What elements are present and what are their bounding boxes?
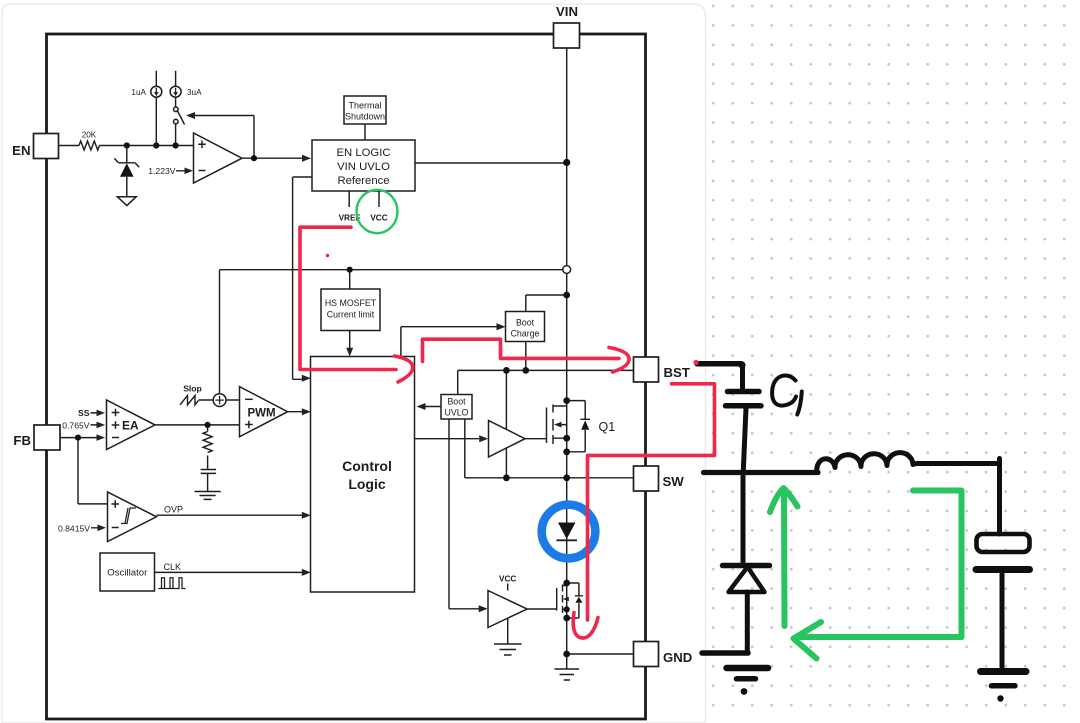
svg-text:Logic: Logic [348,476,386,492]
svg-text:Boot: Boot [447,397,466,407]
svg-text:Slop: Slop [183,384,202,394]
svg-text:UVLO: UVLO [445,408,469,418]
svg-text:SS: SS [78,408,90,418]
svg-text:0.765V: 0.765V [62,420,90,430]
svg-text:VIN: VIN [556,4,578,19]
svg-text:Boot: Boot [516,318,535,328]
svg-text:Control: Control [342,458,392,474]
svg-text:20K: 20K [82,131,97,140]
svg-text:1.223V: 1.223V [148,166,176,176]
svg-text:Oscillator: Oscillator [107,568,148,579]
svg-text:EN LOGIC: EN LOGIC [337,147,391,159]
svg-text:Q1: Q1 [599,420,616,434]
svg-text:VCC: VCC [370,214,387,223]
svg-text:BST: BST [664,365,690,380]
svg-text:CLK: CLK [164,562,182,572]
svg-text:PWM: PWM [247,408,275,420]
svg-text:EN: EN [12,143,30,158]
svg-text:Reference: Reference [337,175,389,187]
svg-text:SW: SW [663,474,685,489]
svg-text:EA: EA [122,419,139,433]
svg-text:GND: GND [663,650,692,665]
svg-text:FB: FB [13,433,31,448]
svg-text:Current limit: Current limit [327,310,375,320]
svg-text:Shutdown: Shutdown [345,112,385,122]
svg-text:HS MOSFET: HS MOSFET [325,298,377,308]
svg-text:VIN UVLO: VIN UVLO [337,161,390,173]
svg-text:0.8415V: 0.8415V [58,523,90,533]
svg-text:1uA: 1uA [131,88,146,97]
svg-text:OVP: OVP [164,505,183,515]
svg-text:VCC: VCC [499,575,516,584]
svg-text:Charge: Charge [511,329,540,339]
svg-text:Thermal: Thermal [348,101,381,111]
svg-text:3uA: 3uA [187,88,202,97]
